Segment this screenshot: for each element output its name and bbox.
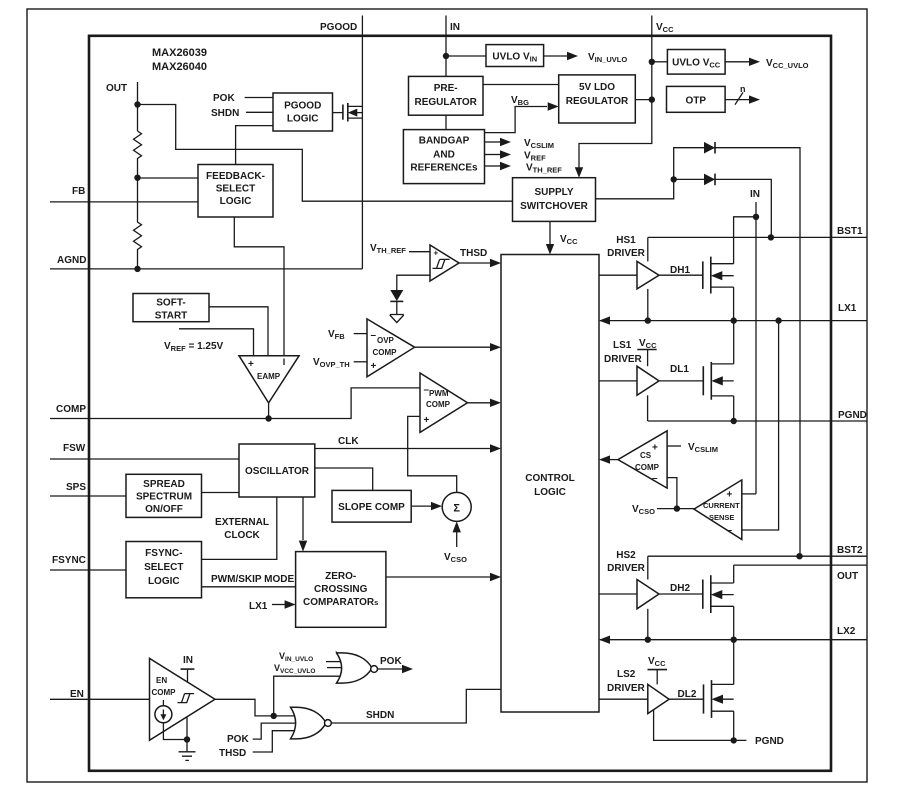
wire FSYNC pin line bbox=[50, 569, 126, 571]
svg-text:REFERENCEs: REFERENCEs bbox=[410, 163, 478, 174]
svg-text:DRIVER: DRIVER bbox=[607, 248, 646, 259]
wire SHDN gate output to control logic bbox=[331, 689, 501, 723]
wire current source to ground bbox=[163, 723, 187, 740]
arrowhead LX1 into zero crossing bbox=[285, 600, 296, 608]
wire control logic to LS1 driver bbox=[599, 380, 637, 382]
diode thermal stack bbox=[390, 290, 403, 301]
supply tap Vcc LS1 bbox=[637, 349, 656, 351]
wire SHDN to pgood logic bbox=[246, 111, 273, 113]
wire VREF to EAMP plus input bbox=[179, 329, 254, 356]
comparator OVP COMP bbox=[367, 319, 415, 377]
svg-text:COMP: COMP bbox=[56, 404, 86, 415]
wire EN comp reference to ground bbox=[186, 717, 188, 740]
svg-text:COMP: COMP bbox=[152, 688, 177, 697]
wire POK gate output bbox=[378, 668, 403, 670]
svg-text:BST1: BST1 bbox=[837, 226, 863, 237]
svg-text:LX1: LX1 bbox=[838, 303, 857, 314]
svg-text:CROSSING: CROSSING bbox=[314, 584, 368, 595]
wire control logic to LS2 driver bbox=[599, 698, 648, 700]
arrowhead VCC into supply switchover bbox=[575, 167, 583, 178]
svg-text:FSW: FSW bbox=[63, 443, 86, 454]
block 5V LDO REGULATOR bbox=[559, 75, 636, 123]
wire VCSO to current sense bbox=[657, 508, 694, 510]
block PGOOD LOGIC bbox=[273, 93, 333, 131]
svg-text:IN: IN bbox=[750, 189, 760, 200]
svg-text:EN: EN bbox=[156, 676, 167, 685]
svg-text:POK: POK bbox=[227, 734, 249, 745]
wire HS2 driver bootstrap to BST2 bbox=[647, 556, 649, 579]
svg-text:POK: POK bbox=[380, 656, 402, 667]
node LX2 junction DH2 source bbox=[731, 637, 737, 643]
arrowhead VIN_UVLO bbox=[567, 52, 578, 60]
wire LS2 driver to DL2 gate bbox=[669, 698, 703, 700]
wire COMP pin line to PWM comp inverting input bbox=[50, 388, 420, 419]
svg-text:EN: EN bbox=[70, 689, 84, 700]
svg-text:OTP: OTP bbox=[686, 96, 707, 107]
svg-text:LOGIC: LOGIC bbox=[287, 114, 319, 125]
svg-text:+: + bbox=[434, 249, 439, 258]
wire spread spectrum to oscillator bbox=[202, 492, 240, 494]
node LX1 junction current sense tap bbox=[775, 317, 781, 323]
wire EN pin line bbox=[50, 698, 150, 700]
driver LS1 triangle bbox=[637, 366, 659, 395]
wire IN to DH1 drain bbox=[734, 217, 756, 264]
arrowhead LX2 into control logic bbox=[599, 636, 610, 644]
wire OUT rail bbox=[734, 564, 867, 566]
wire IN stub to high side drains bbox=[755, 202, 757, 494]
svg-text:ON/OFF: ON/OFF bbox=[145, 504, 183, 515]
wire oscillator to slope comp bbox=[315, 468, 373, 490]
svg-text:DH2: DH2 bbox=[670, 583, 690, 594]
transistor PGOOD pull-down PMOS bbox=[333, 103, 363, 122]
supply tap Vcc LS2 bbox=[648, 669, 668, 671]
wire POK to pgood logic bbox=[245, 97, 273, 99]
node PGND2 junction bbox=[731, 737, 737, 743]
wire VFB to OVP comp bbox=[354, 333, 367, 335]
wire 5V LDO output to VCC rail bbox=[635, 99, 652, 101]
svg-text:MAX26040: MAX26040 bbox=[152, 61, 207, 73]
wire supply switchover VCC output down to control logic bbox=[549, 221, 551, 249]
svg-text:EXTERNAL: EXTERNAL bbox=[215, 517, 269, 528]
block FSYNC-SELECT LOGIC bbox=[126, 542, 202, 598]
svg-text:OVP: OVP bbox=[377, 336, 395, 345]
wire current sense plus to IN rail bbox=[742, 493, 756, 495]
driver LS2 triangle bbox=[648, 684, 669, 713]
svg-text:SUPPLY: SUPPLY bbox=[534, 187, 573, 198]
wire THSD to SHDN gate bbox=[253, 731, 298, 752]
wire pgood logic to feedback select logic bbox=[236, 126, 273, 165]
node LX1 junction HS1 driver bbox=[645, 317, 651, 323]
svg-text:MAX26039: MAX26039 bbox=[152, 47, 207, 59]
svg-text:CS: CS bbox=[640, 451, 652, 460]
wire zero crossing to control logic bbox=[386, 576, 490, 578]
wire control logic to HS2 driver bbox=[599, 593, 637, 595]
wire oscillator down to zero crossing bbox=[302, 497, 304, 540]
node AGND junction bbox=[134, 266, 140, 272]
block OSCILLATOR bbox=[239, 444, 315, 497]
arrowhead slope comp into summer bbox=[431, 502, 442, 510]
node VCC to LDO junction bbox=[649, 96, 655, 102]
amplifier CURRENT SENSE pointing left bbox=[694, 480, 742, 540]
wire CS comp inverting to VCSO node bbox=[667, 478, 677, 509]
wire current source top tap bbox=[162, 700, 164, 706]
wire reference output VREF bbox=[485, 154, 501, 156]
svg-text:FB: FB bbox=[72, 186, 85, 197]
wire LS2 return to PGND2 bbox=[654, 710, 747, 740]
arrowhead OTP output bbox=[749, 95, 760, 103]
wire DH2 source to LX2 bbox=[733, 606, 735, 639]
svg-text:PRE-: PRE- bbox=[434, 83, 458, 94]
comparator CS COMP pointing left bbox=[618, 431, 667, 488]
arrowhead CS comp into control logic bbox=[599, 455, 610, 463]
svg-text:PWM: PWM bbox=[429, 389, 449, 398]
arrowhead oscillator into zero crossing bbox=[299, 541, 307, 552]
transistor DL1 bbox=[703, 362, 733, 400]
svg-text:HS2: HS2 bbox=[616, 550, 636, 561]
wire reference output VCSLIM bbox=[485, 141, 501, 143]
wire fsync select to oscillator bbox=[202, 497, 277, 559]
wire EN comp output up to POK gate bbox=[274, 676, 344, 716]
arrowhead VCSO into summer bbox=[453, 521, 461, 532]
wire EN comp output to SHDN gate bbox=[215, 699, 298, 716]
comparator THSD bbox=[430, 245, 459, 281]
wire BST2 rail bbox=[648, 555, 867, 557]
wire OUT node vertical bbox=[137, 82, 139, 131]
svg-text:+: + bbox=[424, 415, 430, 426]
wire LS1 driver to DL1 gate bbox=[659, 380, 703, 382]
svg-text:LOGIC: LOGIC bbox=[534, 487, 566, 498]
diode D1 upper boost bbox=[704, 142, 715, 154]
wire FB pin line bbox=[50, 201, 198, 203]
svg-text:OSCILLATOR: OSCILLATOR bbox=[245, 466, 310, 477]
wire reference output VTH_REF bbox=[485, 165, 501, 167]
node PGND junction DL1 source bbox=[731, 418, 737, 424]
svg-text:+: + bbox=[371, 361, 377, 372]
wire BST1 rail bbox=[648, 236, 867, 238]
svg-text:–: – bbox=[727, 525, 733, 536]
arrowhead POK output bbox=[402, 665, 413, 673]
svg-text:SELECT: SELECT bbox=[216, 184, 255, 195]
svg-text:LS2: LS2 bbox=[617, 669, 636, 680]
svg-text:HS1: HS1 bbox=[616, 235, 636, 246]
svg-text:FSYNC: FSYNC bbox=[52, 555, 86, 566]
svg-text:+: + bbox=[727, 490, 733, 501]
svg-text:PGND: PGND bbox=[755, 736, 784, 747]
node diode row junction bbox=[671, 176, 677, 182]
svg-text:IN: IN bbox=[183, 655, 193, 666]
block SOFT-START bbox=[133, 294, 209, 322]
arrowhead VREF bbox=[500, 150, 511, 158]
svg-text:COMP: COMP bbox=[426, 400, 451, 409]
wire DL2 source to PGND2 bbox=[733, 711, 735, 740]
svg-text:SWITCHOVER: SWITCHOVER bbox=[520, 201, 589, 212]
gate NOR POK bbox=[337, 653, 373, 683]
node LX1 junction DH1 source bbox=[731, 317, 737, 323]
diode open lower bbox=[390, 315, 404, 323]
wire FB node to feedback select logic bbox=[138, 177, 199, 179]
node IN drain junction bbox=[753, 214, 759, 220]
wire VCC pin vertical and route to supply switchover bbox=[579, 16, 652, 173]
svg-text:SPECTRUM: SPECTRUM bbox=[136, 492, 192, 503]
svg-text:DRIVER: DRIVER bbox=[607, 683, 646, 694]
wire HS2 driver to DH2 gate bbox=[659, 593, 703, 595]
svg-text:POK: POK bbox=[213, 93, 235, 104]
summer sigma adder bbox=[442, 492, 471, 521]
diode D2 lower boost bbox=[704, 174, 715, 186]
wire VCSO input to summer bbox=[456, 532, 458, 547]
svg-text:DH1: DH1 bbox=[670, 265, 690, 276]
svg-text:DRIVER: DRIVER bbox=[607, 563, 646, 574]
wire lower diode row to BST1 bbox=[674, 179, 772, 237]
wire control logic to HS1 driver bbox=[599, 274, 637, 276]
wire IN to UVLO VIN bbox=[446, 55, 486, 57]
svg-text:BST2: BST2 bbox=[837, 545, 863, 556]
svg-text:CLK: CLK bbox=[338, 436, 359, 447]
svg-text:LX2: LX2 bbox=[837, 626, 856, 637]
arrowhead VCC_UVLO bbox=[749, 58, 760, 66]
op-amp EAMP bbox=[239, 356, 299, 403]
block SPREAD SPECTRUM ON/OFF bbox=[126, 474, 202, 517]
svg-text:BANDGAP: BANDGAP bbox=[419, 136, 470, 147]
block OTP bbox=[667, 86, 726, 112]
svg-text:SHDN: SHDN bbox=[211, 108, 239, 119]
wire VIN_UVLO stub bbox=[326, 661, 340, 663]
wire PWM/SKIP MODE to zero crossing bbox=[202, 586, 296, 588]
wire DH1 source to LX1 bbox=[733, 287, 735, 321]
wire slope comp to summer bbox=[411, 505, 431, 507]
node COMP junction bbox=[265, 415, 271, 421]
block FEEDBACK-SELECT LOGIC bbox=[198, 165, 273, 218]
block SUPPLY SWITCHOVER bbox=[513, 178, 596, 222]
arrowhead VBG bbox=[548, 102, 559, 110]
svg-text:CLOCK: CLOCK bbox=[224, 530, 260, 541]
wire SPS pin line bbox=[50, 495, 126, 497]
svg-text:IN: IN bbox=[450, 22, 460, 33]
svg-text:SPREAD: SPREAD bbox=[143, 479, 185, 490]
current source EN comp bbox=[155, 706, 172, 723]
wire LX2 rail bbox=[600, 639, 867, 641]
svg-text:Σ: Σ bbox=[453, 503, 460, 515]
wire DL1 source to PGND bbox=[733, 396, 735, 421]
wire PRE-REGULATOR to 5V LDO bbox=[483, 84, 559, 86]
wire PGOOD pin vertical bbox=[361, 16, 363, 269]
bus slash OTP output bbox=[735, 92, 743, 104]
block PRE-REGULATOR bbox=[409, 76, 484, 115]
wire LX1 rail bbox=[600, 320, 867, 322]
wire PRE-REGULATOR to BANDGAP bbox=[445, 115, 447, 129]
wire IN pin vertical bbox=[445, 16, 447, 77]
svg-text:FSYNC-: FSYNC- bbox=[145, 548, 182, 559]
svg-text:LOGIC: LOGIC bbox=[148, 576, 180, 587]
block UVLO VCC bbox=[667, 50, 725, 75]
svg-text:DL2: DL2 bbox=[678, 689, 697, 700]
wire LX1 to zero crossing bbox=[272, 604, 285, 606]
wire VTH_REF to THSD comparator bbox=[409, 251, 430, 253]
wire VCC to UVLO VCC bbox=[652, 61, 668, 63]
driver HS2 triangle bbox=[637, 580, 659, 609]
wire FSW pin line bbox=[50, 458, 239, 460]
wire supply switchover output to diode rows bbox=[596, 148, 801, 557]
wire OUT to supply switchover bbox=[138, 105, 513, 202]
svg-text:LOGIC: LOGIC bbox=[220, 196, 252, 207]
resistor R2 lower divider bbox=[134, 178, 142, 269]
wire CLK oscillator to control logic bbox=[315, 448, 490, 450]
svg-text:SENSE: SENSE bbox=[709, 513, 734, 522]
wire HS1 driver to DH1 gate bbox=[659, 274, 703, 276]
node BST2 junction bbox=[796, 553, 802, 559]
wire VOVP_TH to OVP comp bbox=[354, 361, 367, 363]
block ZERO-CROSSING COMPARATORs bbox=[296, 552, 386, 628]
svg-text:LX1: LX1 bbox=[249, 601, 268, 612]
node EN comp output junction bbox=[271, 713, 277, 719]
svg-text:–: – bbox=[652, 473, 658, 484]
node VCC to UVLO VCC junction bbox=[649, 59, 655, 65]
wire soft-start to EAMP bbox=[209, 307, 268, 356]
wire HS2 driver return to LX2 bbox=[647, 609, 649, 640]
block UVLO VIN bbox=[486, 45, 544, 67]
svg-text:5V LDO: 5V LDO bbox=[579, 82, 615, 93]
wire CS comp output to control logic bbox=[610, 459, 618, 461]
IC boundary box MAX26039/MAX26040 bbox=[89, 36, 831, 771]
wire VCSLIM stub to CS comp bbox=[667, 445, 681, 447]
svg-text:–: – bbox=[371, 330, 377, 341]
wire THSD output to control logic bbox=[459, 262, 490, 264]
svg-text:LS1: LS1 bbox=[613, 340, 632, 351]
node IN junction bbox=[443, 53, 449, 59]
block BANDGAP AND REFERENCEs bbox=[403, 130, 484, 184]
ground symbol bbox=[179, 740, 196, 761]
node LX2 junction HS2 driver bbox=[645, 637, 651, 643]
wire DL2 drain to LX2 bbox=[733, 640, 735, 685]
wire UVLO VIN output bbox=[544, 55, 567, 57]
wire VVCC_UVLO stub bbox=[327, 667, 341, 669]
node BST1 junction bbox=[768, 234, 774, 240]
wire current sense minus to LX1 bbox=[742, 321, 779, 530]
svg-text:SOFT-: SOFT- bbox=[156, 298, 185, 309]
wire LS1 driver return to PGND bbox=[647, 395, 649, 421]
svg-text:REGULATOR: REGULATOR bbox=[566, 96, 629, 107]
gate NOR SHDN bbox=[291, 707, 327, 739]
svg-text:COMPARATORs: COMPARATORs bbox=[303, 597, 378, 608]
wire HS1 driver return to LX1 bbox=[647, 289, 649, 321]
svg-text:+: + bbox=[652, 443, 658, 454]
svg-text:PGOOD: PGOOD bbox=[320, 22, 357, 33]
resistor R1 upper divider bbox=[134, 131, 142, 178]
arrowhead zero crossing into control logic bbox=[490, 573, 501, 581]
svg-text:+: + bbox=[248, 359, 254, 370]
wire feedback select to EAMP inverting input bbox=[234, 217, 284, 356]
svg-text:n: n bbox=[740, 84, 746, 94]
wire DL1 drain to LX1 bbox=[733, 321, 735, 364]
svg-text:COMP: COMP bbox=[373, 348, 398, 357]
hysteresis symbol EN comp bbox=[178, 694, 195, 703]
wire AGND pin line bbox=[50, 268, 362, 270]
arrowhead VTH_REF bbox=[500, 162, 511, 170]
svg-text:AND: AND bbox=[433, 149, 455, 160]
node OUT junction bbox=[134, 101, 140, 107]
block CONTROL LOGIC bbox=[501, 255, 599, 713]
wire OVP output to control logic bbox=[415, 346, 490, 348]
svg-text:OUT: OUT bbox=[106, 83, 127, 94]
svg-text:PGOOD: PGOOD bbox=[284, 101, 321, 112]
svg-text:SLOPE COMP: SLOPE COMP bbox=[338, 502, 405, 513]
svg-text:SPS: SPS bbox=[66, 482, 86, 493]
wire EAMP output to COMP bbox=[268, 403, 270, 419]
arrowhead VCSLIM bbox=[500, 138, 511, 146]
driver HS1 triangle bbox=[637, 261, 659, 289]
transistor DH1 bbox=[703, 257, 734, 294]
block SLOPE COMP bbox=[332, 490, 411, 522]
svg-text:START: START bbox=[155, 311, 188, 322]
svg-text:CURRENT: CURRENT bbox=[703, 501, 740, 510]
arrowhead CLK into control logic bbox=[490, 444, 501, 452]
comparator PWM COMP bbox=[420, 373, 468, 432]
arrowhead PWM into control logic bbox=[490, 399, 501, 407]
svg-text:AGND: AGND bbox=[57, 255, 86, 266]
svg-text:EAMP: EAMP bbox=[257, 372, 281, 381]
transistor DL2 bbox=[704, 680, 734, 718]
svg-text:SHDN: SHDN bbox=[366, 710, 394, 721]
svg-text:REGULATOR: REGULATOR bbox=[414, 97, 477, 108]
svg-text:OUT: OUT bbox=[837, 571, 858, 582]
wire DH2 drain to OUT rail bbox=[733, 565, 735, 583]
svg-text:THSD: THSD bbox=[219, 748, 246, 759]
svg-text:DL1: DL1 bbox=[670, 364, 689, 375]
wire UVLO VCC output bbox=[725, 61, 749, 63]
svg-text:COMP: COMP bbox=[635, 463, 660, 472]
wire THSD inverting input to diode stack bbox=[397, 275, 430, 290]
supply tap IN EN comparator bbox=[181, 668, 195, 670]
transistor DH2 bbox=[703, 575, 734, 613]
wire OTP output bus bbox=[725, 99, 749, 101]
node VCSO junction bbox=[674, 505, 680, 511]
wire PWM output to control logic bbox=[468, 402, 491, 404]
arrowhead OVP into control logic bbox=[490, 343, 501, 351]
arrowhead LX1 into control logic bbox=[599, 316, 610, 324]
svg-text:THSD: THSD bbox=[460, 248, 487, 259]
comparator EN COMP bbox=[150, 658, 216, 740]
wire HS1 driver bootstrap to BST1 bbox=[647, 237, 649, 261]
node ground junction bbox=[184, 736, 190, 742]
svg-text:ZERO-: ZERO- bbox=[325, 571, 356, 582]
svg-text:FEEDBACK-: FEEDBACK- bbox=[206, 171, 265, 182]
arrowhead THSD into control logic bbox=[490, 259, 501, 267]
svg-text:SELECT: SELECT bbox=[144, 562, 183, 573]
arrowhead VCC into control logic bbox=[546, 244, 554, 255]
svg-text:CONTROL: CONTROL bbox=[525, 473, 574, 484]
wire PGND rail bbox=[648, 420, 867, 422]
wire summer output to PWM comp plus input bbox=[408, 416, 457, 492]
wire VBG to 5V LDO bbox=[485, 107, 548, 133]
svg-text:DRIVER: DRIVER bbox=[604, 354, 643, 365]
wire POK to SHDN gate bbox=[253, 723, 298, 739]
node FB divider junction bbox=[134, 175, 140, 181]
svg-text:PWM/SKIP MODE: PWM/SKIP MODE bbox=[211, 574, 294, 585]
svg-text:PGND: PGND bbox=[838, 410, 867, 421]
